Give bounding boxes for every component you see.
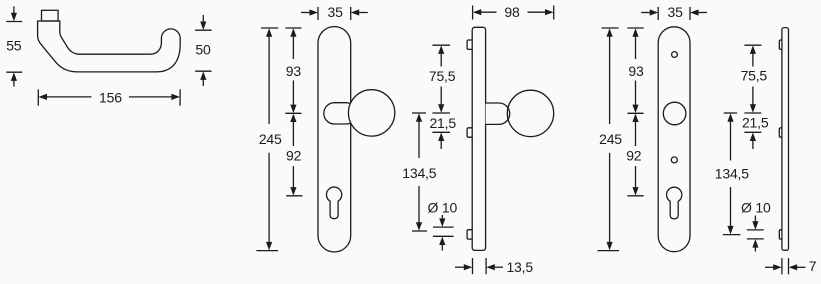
dim 134,5 right arrow down <box>730 187 732 229</box>
fixing lug bottom side view <box>467 230 472 239</box>
dim 93 right arrow down <box>635 81 637 108</box>
dim 156 arrow left <box>45 96 92 98</box>
fixing lug middle side view <box>467 128 472 137</box>
dim 50 arrow down <box>202 15 204 24</box>
dim 93/92 right tick shared <box>627 112 643 114</box>
dim 21,5 right arrow up below <box>752 139 754 150</box>
dim 75,5/21,5 right tick shared <box>744 112 761 114</box>
dim 35 right tick left <box>657 7 659 20</box>
dim 21,5 right tick bottom <box>744 131 761 133</box>
svg-text:50: 50 <box>195 42 211 58</box>
dim 21,5 middle arrow up below <box>440 139 442 150</box>
knob neck side <box>486 103 510 124</box>
dim 35 middle arrow right <box>301 12 312 14</box>
dim 55 arrow down <box>13 6 15 15</box>
dim 75,5 middle arrow down <box>440 87 442 108</box>
dim 245 right tick top <box>602 27 619 29</box>
dim 55 tick bottom <box>6 71 22 73</box>
fixing lug top side view <box>467 40 472 49</box>
svg-text:13,5: 13,5 <box>506 259 533 275</box>
backplate knob version front <box>318 27 351 252</box>
dim 134,5 middle arrow down <box>418 186 420 225</box>
dim 13,5 arrow left <box>493 266 504 268</box>
dim 55 tick top <box>6 21 22 23</box>
dim 75,5 middle arrow up <box>440 51 442 66</box>
dim 13,5 tick left <box>472 258 474 274</box>
svg-text:92: 92 <box>626 148 642 164</box>
dim 245 right arrow down <box>609 153 611 245</box>
dim 92 right arrow up <box>635 119 637 146</box>
handle spindle neck <box>42 10 59 21</box>
dim 35 right tick right <box>689 7 691 20</box>
dim 245 middle arrow up <box>268 34 270 124</box>
fixing lug top far right <box>779 40 782 49</box>
svg-text:7: 7 <box>809 258 817 274</box>
dim 13,5 tick right <box>485 258 487 274</box>
dim dia10 right tick bottom <box>747 238 764 240</box>
dim 98 arrow right <box>528 11 548 13</box>
dim 55 arrow up <box>13 78 15 87</box>
dim 50 tick top <box>195 29 212 31</box>
svg-text:156: 156 <box>99 90 122 106</box>
knob neck front <box>324 103 357 124</box>
dim dia10 right arrow up <box>754 245 756 252</box>
dim 98 tick right <box>553 6 555 20</box>
fixing lug bottom far right <box>779 230 782 239</box>
dim 35 middle tick right <box>350 7 352 20</box>
svg-text:21,5: 21,5 <box>429 115 456 131</box>
svg-text:93: 93 <box>628 63 644 79</box>
dim 93 middle arrow down <box>292 81 294 108</box>
dim 245 middle tick top <box>261 27 278 29</box>
dim 93 middle tick top <box>285 27 301 29</box>
svg-text:245: 245 <box>599 131 622 147</box>
dim 50 arrow up <box>202 77 204 86</box>
fixing lug middle far right <box>779 128 782 137</box>
dim 134,5 right arrow up <box>730 119 732 160</box>
dim 7 tick right <box>788 258 790 274</box>
dim 134,5 right tick top <box>724 112 737 114</box>
dim 93/92 middle tick shared <box>285 112 301 114</box>
lever handle outline <box>38 21 181 72</box>
dim 93 middle arrow up <box>292 34 294 59</box>
dim 75,5 right tick top <box>744 44 761 46</box>
dim 156 arrow right <box>129 96 174 98</box>
svg-text:55: 55 <box>6 38 22 54</box>
svg-text:Ø 10: Ø 10 <box>741 199 771 215</box>
dim 75,5 right arrow down <box>752 87 754 108</box>
dim 75,5 middle tick top <box>432 44 450 46</box>
dim 245 middle tick bottom <box>256 250 278 252</box>
dim 7 arrow left <box>795 266 806 268</box>
knob ball front <box>348 90 394 136</box>
keyhole cylinder middle plate <box>326 187 341 219</box>
dim 93 right arrow up <box>635 34 637 59</box>
dim dia10 middle tick top <box>433 226 454 228</box>
screw hole top right plate <box>672 52 678 58</box>
dim 7 arrow right <box>765 266 775 268</box>
dim 156 tick right <box>179 89 181 105</box>
knob ball side <box>507 90 553 136</box>
backplate lever version side <box>782 28 789 251</box>
dim 245 middle arrow down <box>268 153 270 245</box>
dim 92 right arrow down <box>635 166 637 190</box>
dim dia10 middle arrow down <box>441 215 443 221</box>
dim dia10 middle tick bottom <box>433 235 454 237</box>
dim 93 right tick top <box>627 27 643 29</box>
svg-text:35: 35 <box>668 4 684 20</box>
dim 134,5 right tick bottom <box>723 234 741 236</box>
svg-text:75,5: 75,5 <box>429 68 456 84</box>
dim dia10 right arrow down <box>754 216 756 225</box>
dim 75,5 right arrow up <box>752 51 754 66</box>
handle hole right plate <box>663 102 686 125</box>
dim dia10 middle arrow up <box>441 242 443 250</box>
dim 134,5 middle arrow up <box>418 119 420 158</box>
dim 156 tick left <box>37 89 39 105</box>
svg-text:134,5: 134,5 <box>402 165 436 181</box>
dim 21,5 middle tick bottom <box>432 131 450 133</box>
svg-text:92: 92 <box>286 148 302 164</box>
dim 7 tick left <box>781 258 783 274</box>
dim 245 right arrow up <box>609 34 611 124</box>
dim 134,5 middle tick top <box>412 112 426 114</box>
dim 92 middle arrow up <box>292 119 294 146</box>
dim 35 right arrow left <box>697 12 708 14</box>
svg-text:134,5: 134,5 <box>715 165 749 181</box>
dim 245 right tick bottom <box>598 250 620 252</box>
dim 92 right tick bottom <box>627 195 643 197</box>
screw hole bottom right plate <box>671 157 677 163</box>
dim 35 middle arrow left <box>357 12 368 14</box>
svg-text:75,5: 75,5 <box>741 68 768 84</box>
svg-text:98: 98 <box>504 4 520 20</box>
svg-text:245: 245 <box>259 131 282 147</box>
svg-text:21,5: 21,5 <box>742 115 769 131</box>
dim dia10 right tick top <box>747 229 764 231</box>
dim 92 middle arrow down <box>292 166 294 190</box>
dim 98 arrow left <box>479 11 497 13</box>
dim 35 middle tick left <box>317 7 319 20</box>
dim 98 tick left <box>472 6 474 20</box>
svg-text:Ø 10: Ø 10 <box>428 199 458 215</box>
svg-text:93: 93 <box>286 63 302 79</box>
dim 134,5 middle tick bottom <box>412 230 427 232</box>
dim 35 right arrow right <box>641 12 652 14</box>
dim 75,5/21,5 middle tick shared <box>432 112 450 114</box>
dim 92 middle tick bottom <box>286 195 302 197</box>
dim 13,5 arrow right <box>455 266 466 268</box>
backplate knob version side <box>472 27 485 250</box>
dim 50 tick bottom <box>195 70 212 72</box>
backplate lever version front <box>658 27 690 252</box>
svg-text:35: 35 <box>328 4 344 20</box>
keyhole cylinder right plate <box>667 187 682 219</box>
